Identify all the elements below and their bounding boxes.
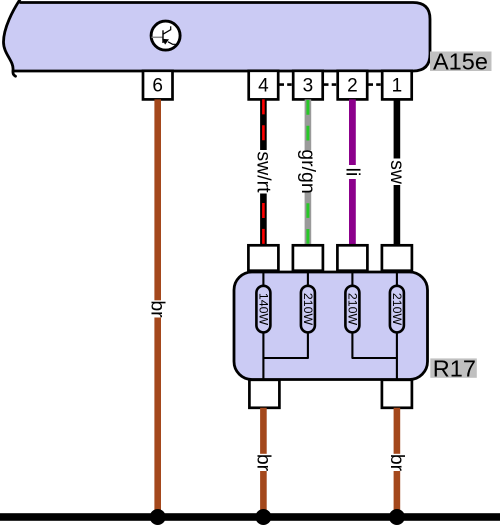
wire label gr/gn	[297, 149, 319, 193]
control unit A15e body	[4, 0, 431, 76]
pin 4	[249, 71, 279, 100]
heating element 2 (210W)	[301, 286, 315, 333]
wire label br (right bottom wire)	[386, 454, 408, 472]
R17 top terminal under pin 1 wire	[382, 245, 412, 270]
wire br from pin 6 to ground bus	[154, 99, 161, 517]
wire label sw/rt	[252, 150, 274, 194]
R17 bottom-left terminal	[249, 380, 279, 408]
junction dot left br wire / ground bus	[255, 509, 271, 525]
svg-text:li: li	[341, 168, 363, 177]
svg-text:br: br	[147, 300, 169, 318]
R17 top terminal under pin 2 wire	[337, 245, 367, 270]
svg-text:210W: 210W	[345, 293, 359, 326]
wire br from R17 bottom-right terminal to ground bus	[394, 408, 401, 517]
svg-text:2: 2	[347, 75, 358, 96]
internal wire joining element2 to element1	[263, 357, 309, 359]
internal wire terminal2 to element2	[307, 271, 309, 286]
R17 top terminal under pin 4 wire	[248, 245, 278, 270]
transistor symbol inside A15e	[151, 21, 180, 50]
heating element 1 (140W)	[256, 286, 270, 333]
svg-text:A15e: A15e	[433, 49, 488, 75]
internal wire element3 down	[351, 333, 353, 359]
internal wire terminal4 to element4	[396, 271, 398, 286]
R17 bottom-right terminal	[382, 380, 412, 408]
svg-text:gr/gn: gr/gn	[297, 149, 319, 193]
pin 3	[293, 71, 323, 100]
internal wire element1 to bottom-left terminal	[262, 333, 264, 381]
svg-text:br: br	[386, 454, 408, 472]
svg-text:1: 1	[392, 75, 403, 96]
dashed link pins 3-2	[324, 83, 337, 86]
internal wire terminal1 to element1	[262, 271, 264, 286]
internal wire terminal3 to element3	[351, 271, 353, 286]
pin 1	[382, 71, 412, 100]
junction dot pin6 wire / ground bus	[150, 509, 166, 525]
wire label li	[341, 165, 363, 179]
svg-text:sw: sw	[386, 160, 408, 185]
svg-text:4: 4	[258, 75, 269, 96]
wire label br (pin 6 wire)	[147, 300, 169, 318]
wire sw/rt from pin 4 to R17 terminal	[260, 99, 267, 245]
svg-text:210W: 210W	[390, 293, 404, 326]
wire label br (left bottom wire)	[252, 454, 274, 472]
svg-text:sw/rt: sw/rt	[252, 151, 274, 193]
svg-text:R17: R17	[433, 356, 476, 382]
internal wire element4 to bottom-right terminal	[396, 333, 398, 381]
heating element 3 (210W)	[345, 286, 359, 333]
pin 2	[338, 71, 368, 100]
wire label sw	[386, 159, 408, 186]
wire gr/gn from pin 3 to R17 terminal	[305, 99, 312, 245]
label R17	[430, 356, 477, 382]
dashed link pins 4-3	[280, 83, 293, 86]
heating element 4 (210W)	[390, 286, 404, 333]
ground bus	[0, 513, 500, 521]
internal wire joining element3 to element4	[352, 357, 398, 359]
svg-text:6: 6	[152, 75, 163, 96]
svg-text:3: 3	[303, 75, 314, 96]
wire sw from pin 1 to R17 terminal	[394, 99, 401, 245]
pin 6	[143, 71, 173, 100]
svg-text:br: br	[252, 454, 274, 472]
svg-text:140W: 140W	[256, 293, 270, 326]
dashed link pins 2-1	[369, 83, 382, 86]
junction dot right br wire / ground bus	[389, 509, 405, 525]
wire li from pin 2 to R17 terminal	[349, 99, 356, 245]
heater resistor R17 body	[234, 272, 428, 380]
svg-text:210W: 210W	[301, 293, 315, 326]
internal wire element2 down	[307, 333, 309, 359]
wire br from R17 bottom-left terminal to ground bus	[260, 408, 267, 517]
R17 top terminal under pin 3 wire	[293, 245, 323, 270]
label A15e	[430, 49, 492, 75]
